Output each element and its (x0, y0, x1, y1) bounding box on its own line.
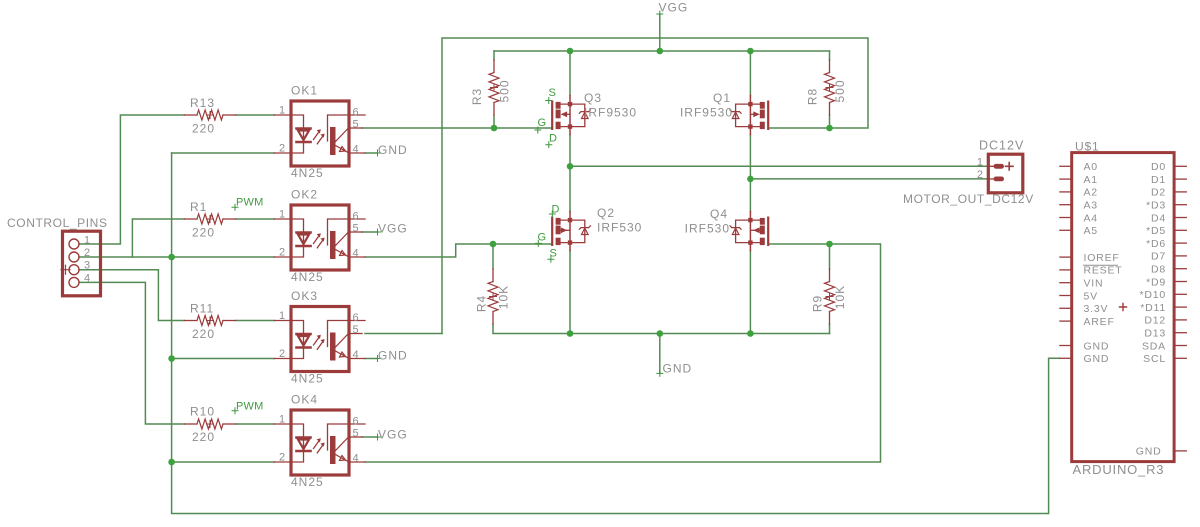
wire R8 bottom lead to gate node (829, 115, 831, 128)
junction Q3 source / rail B (567, 48, 574, 55)
svg-text:GND: GND (1084, 340, 1110, 352)
svg-text:4N25: 4N25 (291, 166, 324, 180)
svg-text:*D6: *D6 (1146, 238, 1166, 250)
svg-text:1: 1 (279, 105, 285, 117)
junction common cathode / OK3 pin2 (168, 355, 175, 362)
svg-text:CONTROL_PINS: CONTROL_PINS (7, 216, 108, 230)
wire OK1 pin5 to Q3 gate (362, 127, 551, 129)
svg-text:OK1: OK1 (291, 84, 318, 98)
resistor R10 220 (184, 419, 235, 429)
wire GND rail tap to GND supply (659, 334, 661, 374)
svg-text:A0: A0 (1084, 161, 1098, 173)
U$1 right pin stubs (1174, 166, 1186, 451)
svg-text:*D5: *D5 (1146, 225, 1166, 237)
svg-text:R10: R10 (190, 405, 215, 419)
supply GND bottom center (657, 370, 663, 376)
connector pin 3 with origin cross (69, 265, 79, 275)
junction Q1 drain / motor out 2 (747, 176, 754, 183)
wire OK1 pin2 to common cathode (172, 152, 275, 154)
junction Q2 source / GND rail (567, 330, 574, 337)
svg-text:2: 2 (279, 143, 285, 155)
svg-text:A3: A3 (1084, 200, 1098, 212)
svg-text:D: D (549, 132, 557, 144)
svg-text:VGG: VGG (378, 427, 408, 441)
svg-text:5: 5 (353, 428, 359, 440)
junction Q1 source / rail B (747, 48, 754, 55)
svg-text:Q2: Q2 (597, 206, 615, 220)
supply VGG top (657, 11, 663, 17)
resistor R8 500 (vertical) (825, 60, 835, 115)
wire Q1 drain to motor node 2 (749, 135, 751, 179)
wire common cathode vertical and bottom rail to Arduino GND (172, 153, 1060, 514)
wire motor output 2 to DC12V pin2 (750, 178, 988, 180)
wire R9 bottom lead (829, 324, 831, 333)
wire OK1 pin4 to GND supply (365, 152, 378, 154)
junction common cathode / OK4 pin2 (168, 459, 175, 466)
supply VGG at OK2 pin5 (375, 229, 381, 235)
svg-text:2: 2 (279, 247, 285, 259)
svg-text:IRF9530: IRF9530 (584, 106, 637, 120)
U$1 right pin names (1136, 161, 1166, 457)
wire Q1 source to rail B (749, 51, 751, 96)
U$1 left pin stubs (1060, 166, 1072, 358)
connector pin 2 (69, 252, 79, 262)
svg-text:3.3V: 3.3V (1084, 303, 1109, 315)
wire Q1 gate (770, 127, 830, 129)
DC12V pin stubs (988, 166, 994, 179)
svg-text:5: 5 (353, 324, 359, 336)
svg-text:G: G (538, 117, 547, 129)
svg-text:PWM: PWM (236, 197, 263, 209)
svg-text:A2: A2 (1084, 187, 1098, 199)
svg-text:VIN: VIN (1084, 278, 1104, 290)
supply GND at OK1 pin4 (375, 150, 381, 156)
wire rail A: OK3 pin5 up-over to Q1 gate side (442, 38, 868, 334)
svg-text:6: 6 (353, 211, 359, 223)
supply GND at OK3 pin4 (375, 356, 381, 362)
svg-text:1: 1 (279, 414, 285, 426)
wire R8 top lead (829, 51, 831, 60)
connector pin 1 (69, 239, 79, 249)
svg-text:VGG: VGG (378, 222, 408, 236)
optocoupler OK2 4N25 (274, 205, 365, 270)
svg-text:10K: 10K (833, 285, 847, 309)
wire control pin1 to R13 (79, 115, 184, 244)
wire R3 top lead (493, 51, 495, 60)
svg-text:220: 220 (192, 430, 215, 444)
net label PWM (R10) (232, 408, 238, 414)
svg-text:4: 4 (353, 349, 359, 361)
junction VGG / rail B (657, 48, 664, 55)
transistor Q3 IRF9530 (P-channel) (552, 96, 590, 135)
svg-text:4: 4 (353, 248, 359, 260)
svg-text:IRF530: IRF530 (685, 222, 730, 236)
wire Q3 source to rail B (569, 51, 571, 96)
svg-text:R3: R3 (470, 88, 484, 105)
svg-text:2: 2 (279, 348, 285, 360)
IC U$1 ARDUINO_R3 box (1072, 153, 1174, 462)
optocoupler OK3 4N25 (274, 307, 365, 372)
svg-text:*D10: *D10 (1139, 289, 1166, 301)
svg-text:*D11: *D11 (1140, 302, 1166, 314)
wire R1 left to pin2 net (132, 219, 184, 257)
svg-text:OK2: OK2 (291, 188, 318, 202)
svg-text:*D9: *D9 (1146, 276, 1166, 288)
svg-text:220: 220 (192, 327, 215, 341)
wire R1 to OK2 pin1 (236, 218, 275, 220)
connector CONTROL_PINS box (63, 231, 101, 296)
svg-text:S: S (549, 87, 556, 99)
junction R8 bottom / Q1 gate (826, 125, 833, 132)
svg-text:5V: 5V (1084, 290, 1098, 302)
svg-text:IOREF: IOREF (1084, 252, 1120, 264)
svg-text:R4: R4 (474, 295, 488, 312)
svg-text:10K: 10K (496, 285, 510, 309)
wire Q2 drain up to motor node 1 (569, 166, 571, 211)
wire R13 to OK1 pin1 (236, 114, 275, 116)
junction Q3 drain / motor out 1 (567, 163, 574, 170)
DC12V pin 2 contact (994, 177, 1005, 182)
RESET overline (1084, 264, 1118, 266)
junction common cathode / control pin2 (168, 254, 175, 261)
svg-text:OK4: OK4 (291, 393, 318, 407)
svg-text:R9: R9 (810, 295, 824, 312)
DC12V plus mark (1006, 163, 1014, 170)
svg-text:4N25: 4N25 (291, 270, 324, 284)
svg-text:2: 2 (977, 169, 983, 181)
wire Q3 drain to motor node (569, 135, 571, 167)
DC12V pin 1 contact (994, 164, 1005, 169)
svg-text:3: 3 (84, 260, 90, 272)
wire Q4 source down to GND rail (749, 251, 751, 334)
wire R10 to OK4 pin1 (236, 423, 275, 425)
svg-text:VGG: VGG (659, 1, 689, 15)
svg-text:D1: D1 (1151, 174, 1166, 186)
wire OK4 pin5 to VGG supply (362, 436, 378, 438)
wire OK4 pin4 over to Q4 gate (365, 244, 881, 462)
svg-text:SCL: SCL (1143, 353, 1166, 365)
junction R3 bottom / Q3 gate (491, 125, 498, 132)
svg-text:IRF9530: IRF9530 (680, 106, 733, 120)
svg-text:GND: GND (378, 143, 408, 157)
optocoupler OK4 4N25 (274, 410, 365, 475)
wire Q4 drain up to motor node 2 (749, 179, 751, 212)
svg-text:D13: D13 (1144, 328, 1166, 340)
svg-text:R11: R11 (190, 302, 214, 316)
transistor Q1 IRF9530 (P-channel, mirrored) (730, 96, 768, 135)
svg-text:1: 1 (84, 234, 90, 246)
transistor Q4 IRF530 (N-channel, mirrored) (730, 212, 768, 251)
resistor R13 220 (184, 110, 235, 120)
wire OK2 pin4 to Q2 gate (365, 244, 551, 257)
svg-text:220: 220 (192, 226, 215, 240)
resistor R4 10K (vertical) (488, 269, 498, 324)
svg-text:500: 500 (497, 79, 511, 102)
svg-text:1: 1 (279, 310, 285, 322)
optocoupler OK1 4N25 (274, 101, 365, 166)
svg-text:GND: GND (1136, 445, 1162, 457)
junction Q4 source / GND rail (747, 330, 754, 337)
svg-text:6: 6 (353, 312, 359, 324)
wire control pin4 to R10 (79, 282, 184, 424)
svg-text:4N25: 4N25 (291, 475, 324, 489)
svg-text:OK3: OK3 (291, 289, 318, 303)
svg-text:500: 500 (833, 79, 847, 102)
svg-text:1: 1 (279, 209, 285, 221)
resistor R3 500 (vertical) (489, 60, 499, 115)
junction R9 top / Q4 gate (826, 241, 833, 248)
wire GND rail with R4 bottom lead (493, 324, 830, 333)
svg-text:RESET: RESET (1084, 265, 1123, 277)
svg-text:IRF530: IRF530 (597, 221, 642, 235)
wire control pin2 to OK2 pin2 (79, 256, 274, 258)
svg-text:5: 5 (353, 223, 359, 235)
junction R4 top / Q2 gate (490, 241, 497, 248)
svg-text:U$1: U$1 (1075, 140, 1099, 154)
svg-text:2: 2 (279, 452, 285, 464)
svg-text:D8: D8 (1151, 264, 1166, 276)
svg-text:R8: R8 (805, 88, 819, 105)
svg-text:220: 220 (192, 122, 215, 136)
svg-text:A4: A4 (1084, 212, 1098, 224)
wire top rail B (VGG) R3 top to R8 top (494, 50, 830, 52)
svg-text:Q1: Q1 (713, 91, 731, 105)
transistor Q2 IRF530 (N-channel) (552, 212, 590, 251)
svg-text:ARDUINO_R3: ARDUINO_R3 (1073, 462, 1165, 477)
wire control pin3 to R11 (79, 270, 184, 321)
svg-text:4: 4 (84, 272, 90, 284)
connector pin 4 (69, 277, 79, 287)
wire OK3 pin4 to GND supply (365, 358, 378, 360)
svg-text:SDA: SDA (1142, 340, 1166, 352)
svg-text:6: 6 (353, 416, 359, 428)
U$1 origin cross (1120, 304, 1127, 311)
svg-text:1: 1 (977, 156, 983, 168)
svg-text:R13: R13 (190, 96, 215, 110)
supply VGG at OK4 pin5 (375, 434, 381, 440)
svg-text:2: 2 (84, 247, 90, 259)
svg-text:A1: A1 (1084, 174, 1098, 186)
svg-text:4N25: 4N25 (291, 372, 324, 386)
svg-text:5: 5 (353, 119, 359, 131)
svg-text:GND: GND (1084, 353, 1110, 365)
svg-text:Q4: Q4 (710, 207, 728, 221)
wire R3 bottom lead to gate node (493, 115, 495, 128)
connector DC12V box (988, 154, 1023, 193)
svg-text:6: 6 (353, 107, 359, 119)
svg-text:R1: R1 (190, 200, 207, 214)
wire OK2 pin5 to VGG supply (362, 231, 378, 233)
wire OK3 pin2 to common cathode (172, 358, 275, 360)
wire VGG supply drop (659, 14, 661, 51)
resistor R1 220 (184, 214, 235, 224)
wire Q2 source down to GND rail (569, 251, 571, 334)
svg-text:4: 4 (353, 453, 359, 465)
junction GND tap (657, 330, 664, 337)
svg-text:DC12V: DC12V (979, 139, 1024, 153)
svg-text:PWM: PWM (236, 401, 263, 413)
svg-text:GND: GND (663, 361, 693, 375)
wire OK4 pin2 to common cathode (172, 461, 275, 463)
svg-text:Q3: Q3 (584, 91, 602, 105)
svg-text:AREF: AREF (1084, 316, 1115, 328)
svg-text:MOTOR_OUT_DC12V: MOTOR_OUT_DC12V (903, 192, 1034, 206)
resistor R9 10K (vertical) (825, 269, 835, 324)
svg-text:D2: D2 (1151, 187, 1166, 199)
svg-text:*D3: *D3 (1146, 200, 1166, 212)
svg-text:D7: D7 (1151, 251, 1166, 263)
svg-text:D4: D4 (1151, 212, 1166, 224)
U$1 left pin names (1084, 161, 1123, 365)
wire R9 top lead (829, 244, 831, 269)
svg-text:GND: GND (378, 349, 408, 363)
svg-text:A5: A5 (1084, 225, 1098, 237)
resistor R11 220 (184, 316, 235, 326)
svg-text:4: 4 (353, 144, 359, 156)
wire motor output 1 to DC12V pin1 (570, 165, 988, 167)
svg-text:D0: D0 (1151, 161, 1166, 173)
wire R11 to OK3 pin1 (236, 320, 275, 322)
wire R4 top lead (492, 244, 494, 269)
wire OK3 pin5 to rail A (365, 333, 442, 335)
svg-text:D12: D12 (1144, 315, 1166, 327)
